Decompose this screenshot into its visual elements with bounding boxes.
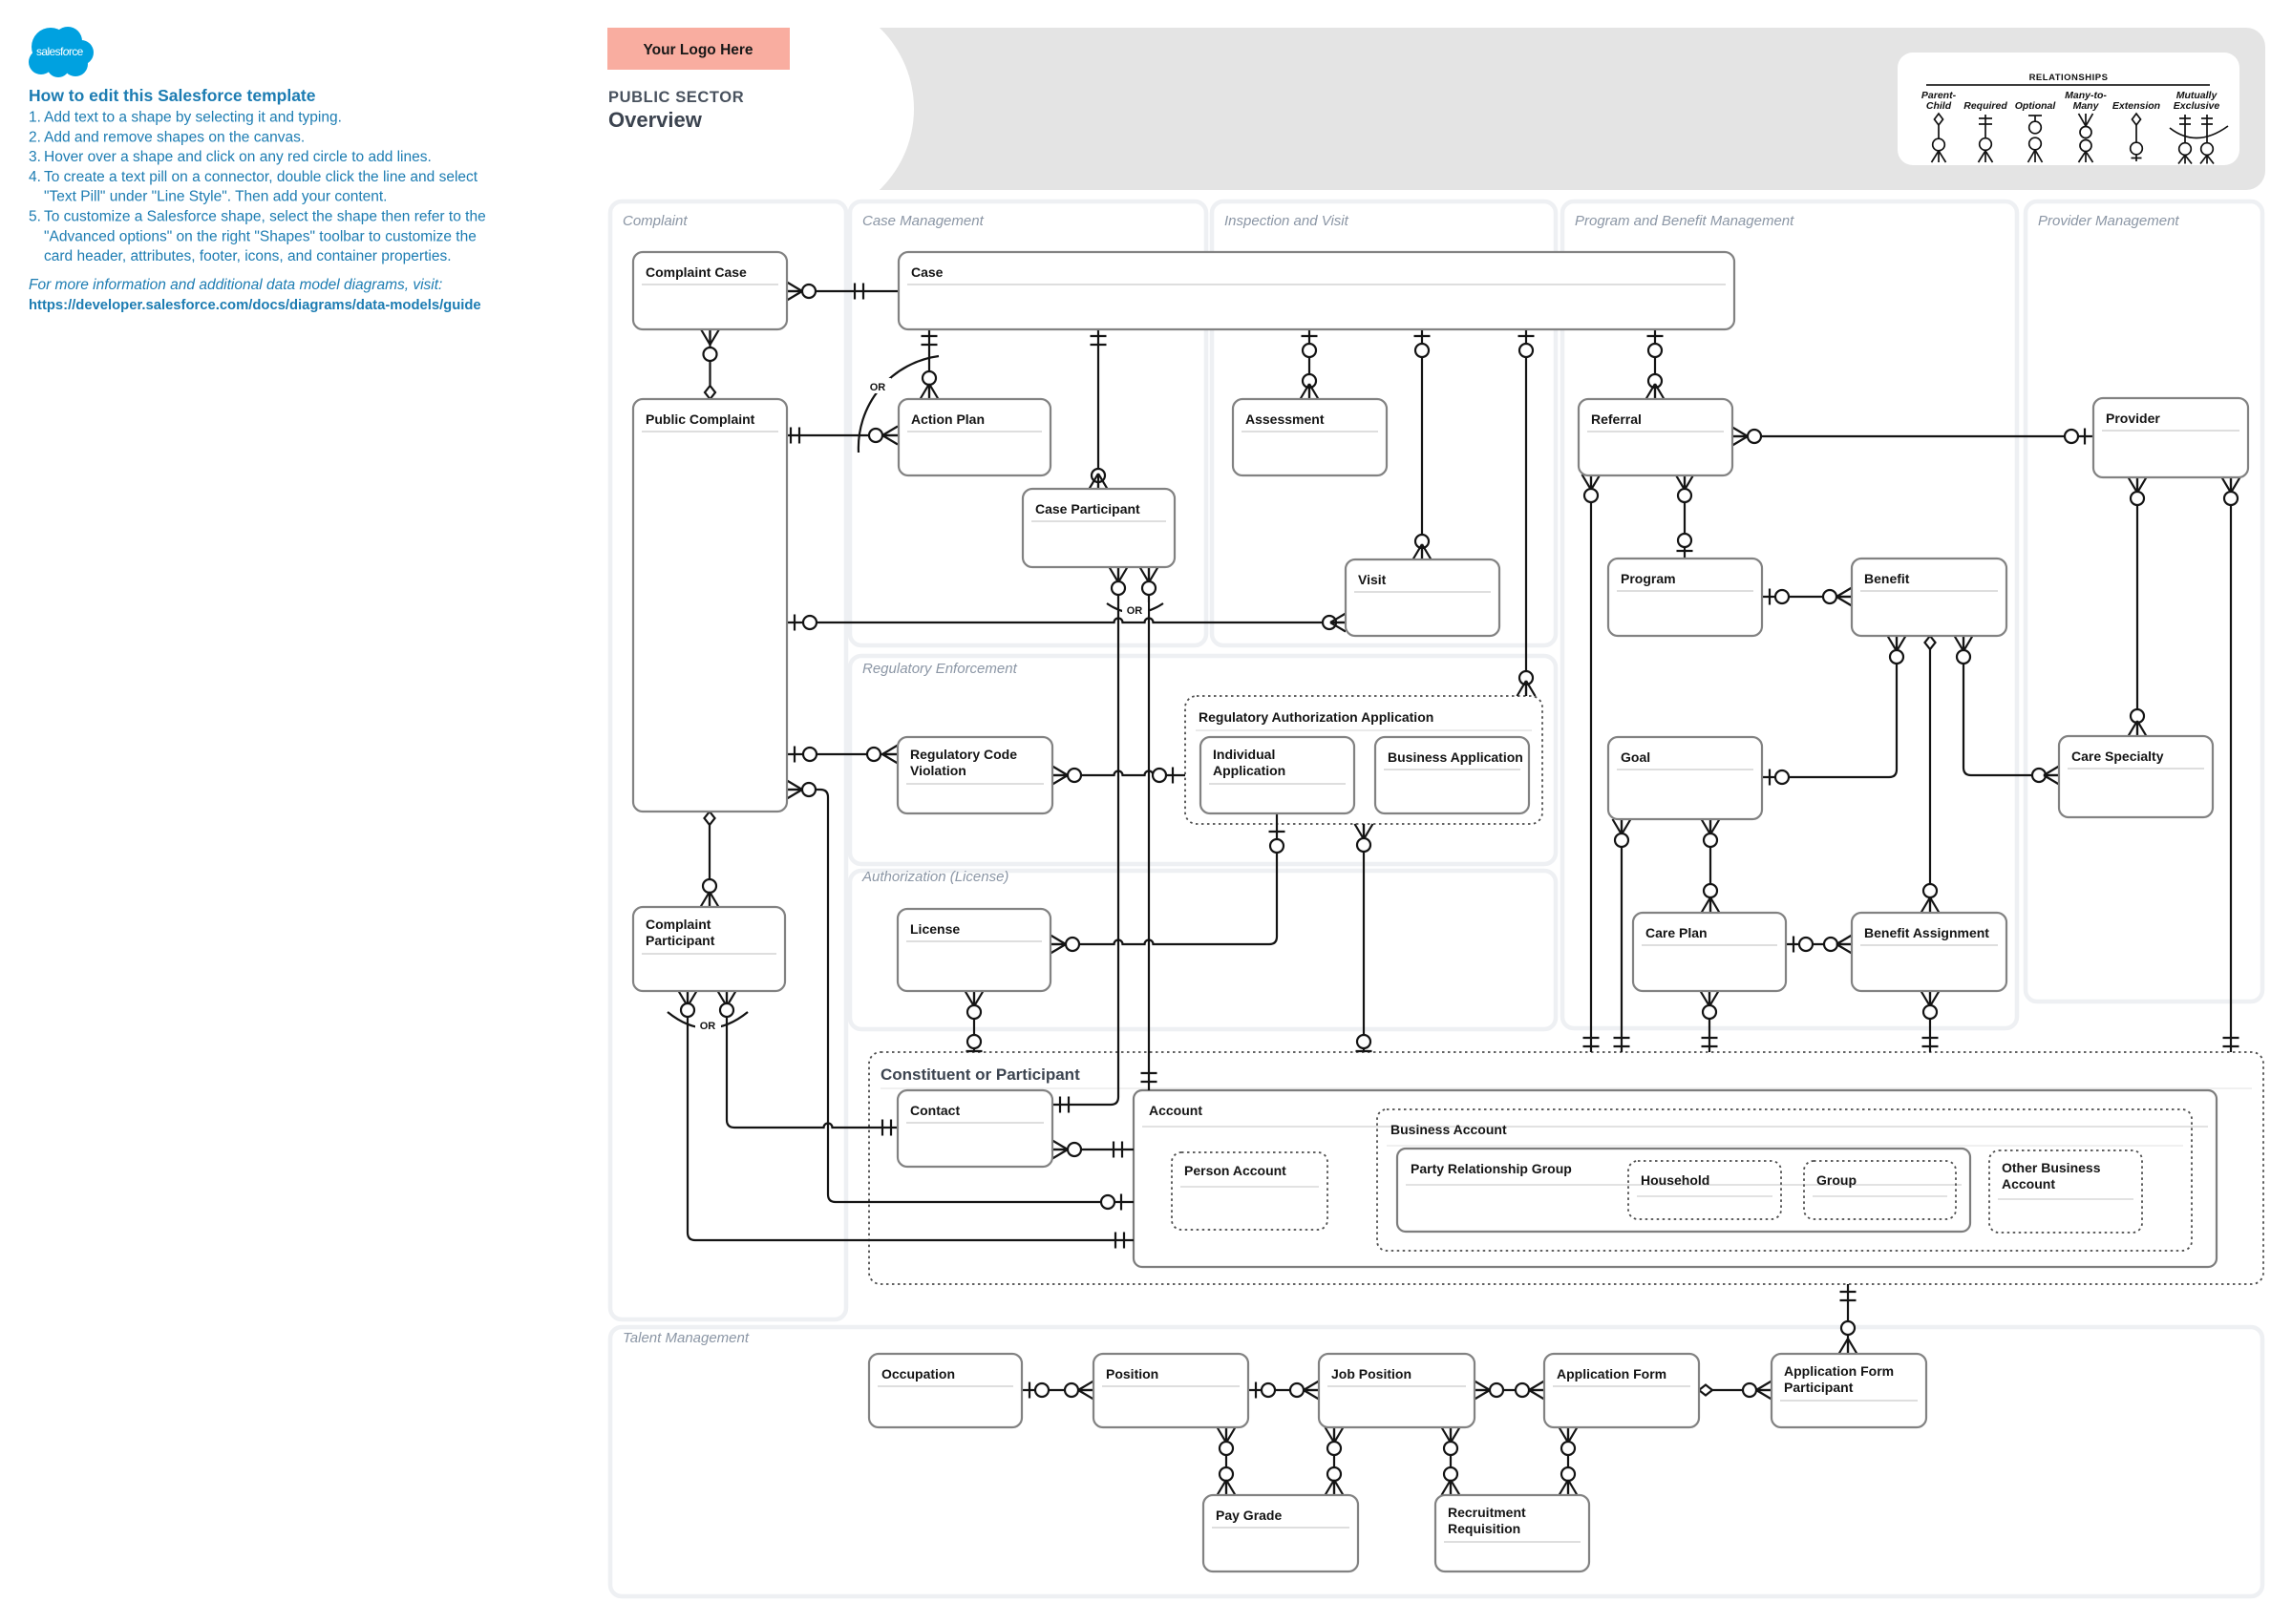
svg-text:Business Application: Business Application bbox=[1388, 749, 1523, 765]
lane: Authorization (License) bbox=[850, 869, 1556, 1029]
wire Regulatory Code Violation - Reg Auth Application bbox=[1052, 767, 1185, 785]
svg-text:Optional: Optional bbox=[2015, 100, 2057, 112]
wire Case - Regulatory Authorization Application bbox=[1517, 329, 1536, 696]
entity Action Plan bbox=[899, 399, 1050, 475]
wire Job Position - Application Form bbox=[1475, 1381, 1544, 1400]
svg-text:OR: OR bbox=[1127, 605, 1143, 617]
OR arc Complaint Participant bbox=[668, 1012, 748, 1032]
wire Public Complaint - Complaint Participant bbox=[701, 812, 719, 907]
svg-text:Add and remove shapes on the c: Add and remove shapes on the canvas. bbox=[44, 129, 305, 145]
svg-text:Household: Household bbox=[1641, 1172, 1709, 1188]
container Household bbox=[1628, 1161, 1781, 1219]
lane: Case Management bbox=[850, 201, 1206, 645]
svg-text:Required: Required bbox=[1963, 100, 2007, 112]
wire Public Complaint - Account bbox=[787, 781, 1134, 1211]
wire Case - Referral bbox=[1646, 329, 1665, 399]
svg-text:Authorization (License): Authorization (License) bbox=[861, 869, 1008, 885]
wire Position - Job Position bbox=[1248, 1381, 1319, 1400]
wire Application Form - Application Form Participant bbox=[1699, 1381, 1772, 1400]
salesforce logo bbox=[29, 27, 94, 77]
svg-text:Provider Management: Provider Management bbox=[2038, 213, 2179, 229]
wire Public Complaint - Visit bbox=[787, 614, 1346, 632]
svg-text:Talent Management: Talent Management bbox=[623, 1330, 750, 1346]
wire Goal - Constituent container bbox=[1613, 819, 1631, 1052]
svg-text:Regulatory Authorization Appli: Regulatory Authorization Application bbox=[1199, 709, 1433, 725]
svg-text:Pay Grade: Pay Grade bbox=[1216, 1508, 1282, 1523]
entity Assessment bbox=[1233, 399, 1387, 475]
entity Care Plan bbox=[1633, 913, 1786, 991]
svg-text:Occupation: Occupation bbox=[881, 1366, 955, 1381]
entity Case Participant bbox=[1023, 489, 1175, 567]
svg-text:For more information and addit: For more information and additional data… bbox=[29, 277, 442, 293]
svg-text:To create a text pill on a con: To create a text pill on a connector, do… bbox=[44, 169, 478, 185]
svg-text:Complaint: Complaint bbox=[646, 917, 711, 932]
entity Visit bbox=[1346, 559, 1499, 636]
svg-text:salesforce: salesforce bbox=[36, 45, 84, 58]
svg-text:License: License bbox=[910, 921, 960, 937]
entity Application Form bbox=[1544, 1354, 1699, 1427]
entity Benefit Assignment bbox=[1852, 913, 2006, 991]
svg-text:Program: Program bbox=[1621, 571, 1676, 586]
entity Job Position bbox=[1319, 1354, 1475, 1427]
svg-text:Other Business: Other Business bbox=[2002, 1160, 2101, 1175]
svg-text:Contact: Contact bbox=[910, 1103, 960, 1118]
entity Referral bbox=[1579, 399, 1732, 475]
svg-text:Requisition: Requisition bbox=[1448, 1521, 1520, 1536]
lane: Program and Benefit Management bbox=[1562, 201, 2017, 1028]
wire Care Plan - Benefit Assignment bbox=[1786, 936, 1852, 954]
wire Occupation - Position bbox=[1022, 1381, 1093, 1400]
svg-text:Case Participant: Case Participant bbox=[1035, 501, 1140, 517]
svg-text:PUBLIC SECTOR: PUBLIC SECTOR bbox=[608, 89, 744, 106]
svg-text:Benefit: Benefit bbox=[1864, 571, 1910, 586]
entity Complaint Participant bbox=[633, 907, 785, 991]
svg-text:Party Relationship Group: Party Relationship Group bbox=[1411, 1161, 1572, 1176]
svg-text:Group: Group bbox=[1816, 1172, 1857, 1188]
lane: Inspection and Visit bbox=[1212, 201, 1556, 645]
wire Provider - Constituent container bbox=[2222, 477, 2240, 1052]
entity Position bbox=[1093, 1354, 1248, 1427]
svg-text:Person Account: Person Account bbox=[1184, 1163, 1286, 1178]
wire Referral - Constituent container bbox=[1582, 475, 1601, 1052]
svg-text:To customize a Salesforce shap: To customize a Salesforce shape, select … bbox=[44, 209, 486, 225]
wire Goal - Care Plan bbox=[1702, 819, 1720, 913]
lane: Talent Management bbox=[610, 1327, 2262, 1596]
svg-text:card header, attributes, foote: card header, attributes, footer, icons, … bbox=[44, 248, 452, 264]
svg-text:Visit: Visit bbox=[1358, 572, 1387, 587]
svg-text:Referral: Referral bbox=[1591, 411, 1642, 427]
wire Public Complaint - Action Plan bbox=[787, 427, 898, 445]
svg-text:Program and Benefit Management: Program and Benefit Management bbox=[1575, 213, 1794, 229]
wire Case - Visit bbox=[1413, 329, 1432, 559]
wire Goal - Benefit bbox=[1762, 636, 1906, 786]
entity Public Complaint bbox=[633, 399, 787, 812]
svg-text:Application Form: Application Form bbox=[1557, 1366, 1666, 1381]
container Person Account bbox=[1172, 1152, 1327, 1230]
wire Benefit Assignment - Constituent container bbox=[1921, 991, 1940, 1052]
svg-text:Benefit Assignment: Benefit Assignment bbox=[1864, 925, 1989, 940]
svg-text:Provider: Provider bbox=[2106, 411, 2160, 426]
entity Case bbox=[899, 252, 1734, 329]
wire Case - Case Participant bbox=[1090, 329, 1108, 489]
entity Complaint Case bbox=[633, 252, 787, 329]
wire License - Individual Application bbox=[1050, 813, 1285, 954]
wire Case Participant - Contact bbox=[1052, 567, 1128, 1113]
entity Contact bbox=[898, 1090, 1052, 1167]
svg-text:Participant: Participant bbox=[1784, 1380, 1854, 1395]
svg-text:Inspection and Visit: Inspection and Visit bbox=[1224, 213, 1349, 229]
entity Application Form Participant bbox=[1772, 1354, 1926, 1427]
entity Pay Grade bbox=[1203, 1495, 1358, 1571]
svg-text:Account: Account bbox=[1149, 1103, 1202, 1118]
svg-text:Complaint: Complaint bbox=[623, 213, 688, 229]
wire Reg Auth Application - Constituent container bbox=[1355, 824, 1373, 1052]
entity Recruitment Requisition bbox=[1435, 1495, 1589, 1571]
svg-text:Hover over a shape and click o: Hover over a shape and click on any red … bbox=[44, 149, 432, 165]
wire Case - Assessment bbox=[1301, 329, 1319, 399]
svg-text:Case Management: Case Management bbox=[862, 213, 985, 229]
svg-text:Regulatory Enforcement: Regulatory Enforcement bbox=[862, 661, 1018, 677]
container Party Relationship Group bbox=[1397, 1149, 1970, 1232]
container Regulatory Authorization Application bbox=[1185, 696, 1542, 824]
instructions text bbox=[29, 86, 486, 313]
entity Program bbox=[1608, 559, 1762, 636]
entity Occupation bbox=[869, 1354, 1022, 1427]
wire Care Plan - Constituent container bbox=[1701, 991, 1719, 1052]
svg-text:Regulatory Code: Regulatory Code bbox=[910, 747, 1017, 762]
svg-text:https://developer.salesforce.c: https://developer.salesforce.com/docs/di… bbox=[29, 298, 481, 313]
wire Job Position - Recruitment Requisition bbox=[1442, 1427, 1460, 1495]
relationships legend bbox=[1898, 53, 2239, 165]
svg-text:Overview: Overview bbox=[608, 108, 703, 132]
svg-text:Application Form: Application Form bbox=[1784, 1363, 1894, 1379]
entity License bbox=[898, 909, 1050, 991]
svg-text:Individual: Individual bbox=[1213, 747, 1275, 762]
lane: Provider Management bbox=[2026, 201, 2262, 1002]
container Business Account bbox=[1377, 1109, 2192, 1251]
svg-text:Add text to a shape by selecti: Add text to a shape by selecting it and … bbox=[44, 110, 342, 126]
entity Business Application bbox=[1375, 737, 1529, 813]
wire License - Constituent container bbox=[966, 991, 984, 1052]
svg-text:Care Specialty: Care Specialty bbox=[2071, 749, 2164, 764]
svg-text:RELATIONSHIPS: RELATIONSHIPS bbox=[2029, 73, 2109, 83]
svg-text:Business Account: Business Account bbox=[1390, 1122, 1507, 1137]
svg-text:Case: Case bbox=[911, 264, 944, 280]
svg-text:Goal: Goal bbox=[1621, 749, 1650, 765]
entity Provider bbox=[2093, 398, 2248, 477]
svg-text:Application: Application bbox=[1213, 763, 1285, 778]
entity Goal bbox=[1608, 737, 1762, 819]
wire Benefit - Care Specialty bbox=[1955, 636, 2060, 785]
lane: Regulatory Enforcement bbox=[850, 656, 1556, 864]
svg-text:How to edit this Salesforce te: How to edit this Salesforce template bbox=[29, 86, 316, 105]
entity Regulatory Code Violation bbox=[898, 737, 1052, 813]
OR arc Case Participant bbox=[1107, 602, 1163, 617]
wire Referral - Provider bbox=[1732, 428, 2093, 446]
lane: Complaint bbox=[610, 201, 846, 1319]
wire Complaint Case - Case bbox=[787, 283, 899, 301]
wire Program - Benefit bbox=[1762, 588, 1852, 606]
svg-text:2.: 2. bbox=[29, 129, 41, 145]
svg-text:4.: 4. bbox=[29, 169, 41, 185]
wire Job Position - Pay Grade bbox=[1326, 1427, 1344, 1495]
svg-text:OR: OR bbox=[700, 1021, 716, 1032]
wire Referral - Program bbox=[1676, 475, 1694, 559]
svg-text:Job Position: Job Position bbox=[1331, 1366, 1411, 1381]
your logo here box bbox=[607, 28, 790, 70]
svg-text:Position: Position bbox=[1106, 1366, 1158, 1381]
wire Benefit - Benefit Assignment bbox=[1921, 636, 1940, 913]
svg-text:Extension: Extension bbox=[2112, 100, 2160, 112]
svg-text:Participant: Participant bbox=[646, 933, 715, 948]
svg-text:Public Complaint: Public Complaint bbox=[646, 411, 755, 427]
svg-text:Exclusive: Exclusive bbox=[2174, 100, 2220, 112]
entity Benefit bbox=[1852, 559, 2006, 636]
entity Care Specialty bbox=[2059, 736, 2213, 817]
svg-text:5.: 5. bbox=[29, 209, 41, 225]
OR arc Action Plan bbox=[859, 356, 939, 453]
svg-text:1.: 1. bbox=[29, 110, 41, 126]
wire Application Form - Recruitment Requisition bbox=[1560, 1427, 1578, 1495]
svg-text:"Text Pill" under "Line Style": "Text Pill" under "Line Style". Then add… bbox=[44, 189, 387, 205]
wire Complaint Case - Public Complaint bbox=[701, 329, 719, 399]
wire Contact - Account bbox=[1052, 1141, 1134, 1159]
svg-text:3.: 3. bbox=[29, 149, 41, 165]
wire Complaint Participant - Contact bbox=[718, 991, 899, 1136]
wire Position - Pay Grade bbox=[1218, 1427, 1236, 1495]
wire Case Participant - Account bbox=[1140, 567, 1158, 1090]
container Group bbox=[1804, 1161, 1956, 1219]
svg-text:Child: Child bbox=[1926, 100, 1952, 112]
top gray band bbox=[689, 0, 2265, 221]
wire Provider - Care Specialty bbox=[2129, 477, 2147, 736]
svg-text:Assessment: Assessment bbox=[1245, 411, 1325, 427]
wire Public Complaint - Regulatory Code Violation bbox=[787, 746, 898, 764]
entity Individual Application bbox=[1200, 737, 1354, 813]
svg-text:OR: OR bbox=[870, 382, 886, 393]
svg-text:Recruitment: Recruitment bbox=[1448, 1505, 1526, 1520]
svg-text:Many: Many bbox=[2073, 100, 2100, 112]
svg-text:Account: Account bbox=[2002, 1176, 2055, 1192]
svg-text:Care Plan: Care Plan bbox=[1645, 925, 1708, 940]
wire Case - Action Plan bbox=[921, 329, 939, 399]
container Account bbox=[1134, 1090, 2217, 1267]
wire Constituent container - Application Form Participant bbox=[1839, 1284, 1857, 1354]
container Constituent or Participant bbox=[869, 1052, 2263, 1284]
container Other Business Account bbox=[1989, 1150, 2142, 1233]
svg-text:"Advanced options" on the righ: "Advanced options" on the right "Shapes"… bbox=[44, 228, 477, 244]
heading bbox=[608, 89, 744, 132]
svg-text:Violation: Violation bbox=[910, 763, 966, 778]
wire Complaint Participant - Account (left branch) bbox=[679, 991, 1135, 1249]
svg-text:Action Plan: Action Plan bbox=[911, 411, 985, 427]
svg-text:Complaint Case: Complaint Case bbox=[646, 264, 747, 280]
svg-text:Your Logo Here: Your Logo Here bbox=[643, 42, 753, 58]
svg-text:Constituent or Participant: Constituent or Participant bbox=[881, 1065, 1080, 1084]
